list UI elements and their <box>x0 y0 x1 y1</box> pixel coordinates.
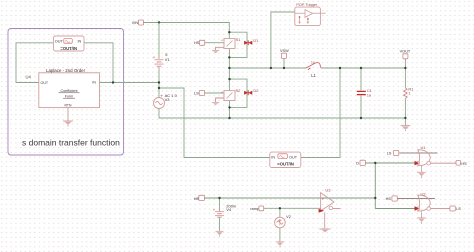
svg-text:LS: LS <box>194 92 199 96</box>
annotation box: s domain transfer function <box>8 29 124 156</box>
wire Laplace IN <box>100 82 160 84</box>
wire ramp to comparator minus <box>264 207 321 209</box>
svg-text:Form: Form <box>65 94 73 98</box>
svg-text:S2: S2 <box>236 88 242 93</box>
svg-text:OUT: OUT <box>41 81 49 85</box>
source V2 AC <box>275 214 292 228</box>
svg-text:RTN: RTN <box>65 104 72 108</box>
port HB <box>194 195 205 201</box>
wire U3 output stub <box>333 208 341 210</box>
svg-text:ramp: ramp <box>250 207 259 211</box>
wire V3 to ground rail <box>159 108 405 118</box>
svg-text:IN: IN <box>78 40 82 44</box>
port D <box>356 160 365 165</box>
svg-text:Laplace - 2nd Order: Laplace - 2nd Order <box>46 68 86 73</box>
wire HS port to U2 upper input <box>397 198 435 200</box>
svg-text:D2: D2 <box>253 88 259 93</box>
svg-text:LS: LS <box>456 207 461 211</box>
svg-text:VIN: VIN <box>132 21 139 25</box>
svg-text:HS: HS <box>194 41 200 45</box>
svg-text:=OUT/IN: =OUT/IN <box>60 46 77 51</box>
svg-text:=OUT/IN: =OUT/IN <box>277 162 294 167</box>
wire upper probe IN tap <box>84 43 113 83</box>
wire lower probe output to VOUT rail <box>301 68 340 158</box>
port HS gate S1 <box>194 40 205 45</box>
gate U1 <box>415 145 431 166</box>
wire U1 output <box>430 162 456 164</box>
wire VSW stub <box>283 58 285 68</box>
svg-text:V4: V4 <box>226 207 232 212</box>
gate U2 <box>415 191 431 211</box>
wire comparator plus net <box>205 197 376 199</box>
ground S1 control <box>212 50 219 53</box>
comparator U3 <box>319 188 334 229</box>
wire switch node rail to L1 <box>229 67 305 69</box>
port VIN <box>132 20 144 25</box>
svg-text:POP Trigger: POP Trigger <box>296 3 318 7</box>
ground V2 <box>276 242 284 247</box>
ground V4 <box>216 231 224 236</box>
wire Laplace OUT to upper probe <box>16 43 53 83</box>
ground S2 control <box>212 102 219 105</box>
svg-text:LS: LS <box>387 151 392 155</box>
svg-text:IN: IN <box>271 156 275 160</box>
wire S2 bottom to ground rail <box>229 101 231 119</box>
ground RTN of U4 <box>63 108 73 127</box>
svg-text:HS: HS <box>386 197 392 201</box>
port HS output U1 <box>456 161 467 166</box>
wire S2 control <box>205 92 224 94</box>
Laplace block U4 <box>26 68 100 108</box>
wire LS port to U1 upper input <box>400 152 438 154</box>
port HS input U2 <box>386 196 398 201</box>
svg-text:U3: U3 <box>325 188 331 193</box>
diode D1 <box>244 38 259 45</box>
wire U2 output <box>430 208 450 210</box>
port LS input U1 <box>387 150 399 155</box>
svg-text:L1: L1 <box>311 73 316 78</box>
svg-text:D: D <box>356 162 359 166</box>
port LS output U2 <box>450 206 461 211</box>
wire V1 branch down <box>158 23 160 58</box>
wire VIN to S1 top <box>144 23 230 39</box>
wire D2 parallel loop <box>230 79 248 107</box>
switch S2 <box>221 88 241 101</box>
svg-text:V3: V3 <box>165 97 171 102</box>
wire to U2 lower input <box>375 208 417 210</box>
node VIN junction dot <box>158 21 160 23</box>
wire VOUT stub <box>404 59 406 69</box>
svg-text:U4: U4 <box>26 74 32 79</box>
svg-text:D1: D1 <box>253 38 259 43</box>
wire V1 to V3 <box>158 67 160 98</box>
wire V4 branch <box>219 198 221 231</box>
inductor L1 <box>306 61 321 79</box>
source V3 AC <box>154 93 178 109</box>
svg-text:Coefficient: Coefficient <box>61 89 78 93</box>
svg-text:V1: V1 <box>165 57 171 62</box>
wire L1 to VOUT rail end <box>321 67 406 69</box>
switch S1 <box>221 37 241 48</box>
svg-text:U1: U1 <box>421 145 427 150</box>
wire V2 branch <box>279 208 281 241</box>
svg-text:S1: S1 <box>236 37 242 42</box>
ground U3 <box>319 229 330 232</box>
wire C1 leads <box>360 68 362 118</box>
wire S1 control <box>205 42 224 44</box>
port ramp <box>250 206 263 211</box>
source V4 battery <box>213 203 237 217</box>
svg-text:1u: 1u <box>367 92 371 97</box>
port VSW <box>280 49 289 58</box>
wire D port to U1 input <box>365 162 417 164</box>
ground R1 bottom <box>401 126 411 132</box>
svg-text:1u: 1u <box>311 61 315 65</box>
wire S2 control ground tap <box>216 98 224 102</box>
wire D1 parallel loop <box>229 32 247 57</box>
bode probe lower =OUT/IN <box>270 152 301 167</box>
port VOUT <box>400 50 411 59</box>
svg-text:HS: HS <box>461 162 467 166</box>
wire D net vertical <box>374 163 376 209</box>
bode probe upper =OUT/IN <box>53 36 84 51</box>
wire R1 leads <box>404 68 406 125</box>
wire S1 control ground tap <box>216 47 224 50</box>
ground U2 <box>417 211 426 224</box>
diode D2 <box>244 88 259 95</box>
svg-text:VSW: VSW <box>280 49 289 53</box>
svg-text:OUT: OUT <box>55 40 64 44</box>
resistor R1 <box>404 86 415 98</box>
svg-text:VOUT: VOUT <box>400 50 411 54</box>
wire lower probe input <box>159 88 270 158</box>
ground U1 <box>417 166 426 178</box>
source V1 battery <box>153 52 171 68</box>
svg-text:V2: V2 <box>286 214 292 219</box>
wire POP trigger input <box>271 12 295 68</box>
POP Trigger block <box>295 3 326 26</box>
port LS gate S2 <box>194 90 205 95</box>
wire S1 bottom to S2 top <box>228 49 230 91</box>
svg-text:s domain transfer function: s domain transfer function <box>22 138 120 148</box>
svg-text:OUT: OUT <box>289 156 298 160</box>
capacitor C1 <box>357 88 373 97</box>
svg-text:IN: IN <box>92 81 96 85</box>
